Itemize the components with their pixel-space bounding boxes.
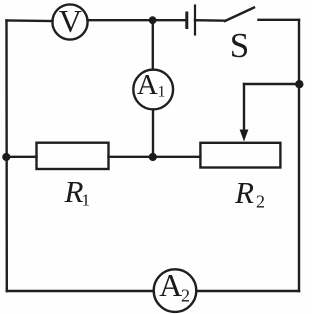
- wire: left vertical branch: [5, 21, 8, 292]
- wire: resistor R1 to middle junction: [109, 156, 154, 158]
- wire: wiper tap horizontal from right branch: [244, 83, 299, 85]
- voltmeter V circle: [52, 4, 87, 39]
- wire: left node to resistor R1: [7, 156, 37, 158]
- svg-text:1: 1: [82, 191, 91, 210]
- wire: bottom left segment from ammeter A2: [7, 290, 154, 292]
- svg-text:R: R: [234, 175, 254, 210]
- junction node: middle (R1/R2/A1): [149, 153, 157, 161]
- rheostat R2 body: [200, 143, 280, 168]
- svg-text:1: 1: [158, 84, 166, 101]
- wire: middle junction to rheostat R2: [153, 156, 200, 158]
- junction node: top wire / A1 branch: [149, 16, 157, 24]
- wire: right vertical branch: [298, 20, 300, 291]
- junction node: left wire / R1: [2, 153, 10, 161]
- wire: wiper vertical drop: [243, 84, 245, 132]
- resistor R1 body: [37, 143, 109, 169]
- wire: top segment voltmeter to battery: [88, 19, 187, 21]
- switch S: open blade: [225, 8, 254, 22]
- wiper arrowhead pointing into R2: [240, 130, 249, 142]
- svg-text:V: V: [59, 3, 82, 39]
- wire: bottom right segment to ammeter A2: [197, 290, 300, 292]
- svg-text:S: S: [230, 26, 249, 65]
- svg-text:2: 2: [256, 192, 265, 212]
- ammeter A2 circle: [154, 269, 197, 312]
- svg-text:A: A: [137, 69, 158, 101]
- battery cell: long positive plate: [194, 6, 196, 35]
- wire: battery to switch pivot: [195, 19, 225, 22]
- ammeter A1 circle: [133, 70, 173, 110]
- svg-text:2: 2: [181, 286, 190, 306]
- junction node: right wire / wiper tap: [295, 80, 303, 88]
- wire: middle branch top (junction to ammeter A1): [152, 20, 154, 69]
- svg-text:A: A: [159, 267, 182, 303]
- battery cell: short negative plate: [185, 13, 188, 28]
- wire: top-left segment from left corner to voltmeter: [7, 19, 53, 22]
- wire: switch fixed contact to top-right corner: [259, 19, 300, 21]
- wire: middle branch bottom (ammeter A1 to junction): [152, 110, 154, 158]
